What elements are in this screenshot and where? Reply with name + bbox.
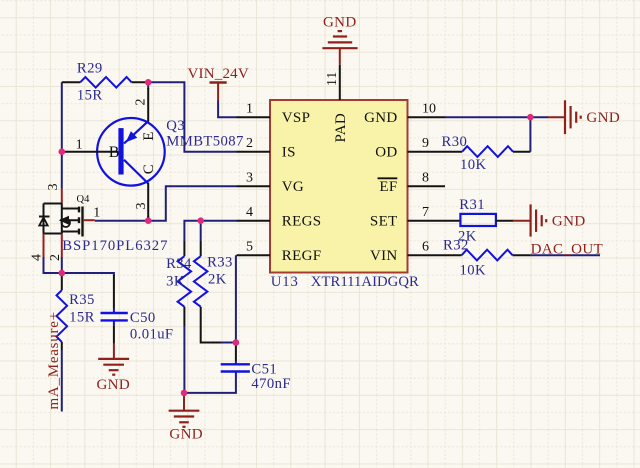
Q4 body arrow: [59, 216, 69, 225]
svg-text:3: 3: [134, 203, 149, 210]
pin 4 REGS stub: [237, 220, 271, 222]
pin 11 PAD stub: [339, 65, 341, 100]
wire Q4 pin4 corner to source junction: [44, 257, 62, 273]
wire VIN_24V to VSP: [218, 101, 236, 118]
svg-text:E: E: [141, 132, 157, 141]
svg-text:1: 1: [246, 102, 253, 117]
junction dot R29/emitter: [145, 79, 152, 86]
R35 pin bottom: [61, 342, 63, 350]
junction dot REGS net: [197, 217, 204, 224]
VIN_24V power bar: [210, 81, 227, 84]
Q4 drain pin 3 red: [61, 189, 63, 204]
svg-text:2: 2: [133, 99, 148, 106]
C50 pin top: [113, 275, 115, 309]
R31 pin right: [496, 220, 513, 222]
wire left column base to Q4 drain: [61, 152, 63, 189]
svg-text:2K: 2K: [208, 272, 227, 288]
R35 pin top: [61, 273, 63, 290]
wire source junction to C50: [62, 273, 114, 276]
wire REGF down to C51: [235, 255, 237, 342]
R34 pin top: [183, 241, 185, 256]
svg-text:C51: C51: [251, 361, 277, 377]
svg-text:2: 2: [48, 254, 63, 261]
svg-text:4: 4: [30, 254, 45, 261]
svg-text:GND: GND: [169, 427, 203, 443]
svg-text:0.01uF: 0.01uF: [130, 326, 174, 342]
wire GND net pin10: [445, 116, 548, 118]
svg-text:EF: EF: [379, 179, 397, 195]
resistor R29: [62, 61, 148, 104]
svg-text:VIN: VIN: [370, 248, 398, 264]
svg-text:IS: IS: [282, 145, 296, 161]
wire Q3 collector to bus: [147, 216, 149, 221]
transistor Q4 BSP170PL6327: [30, 184, 169, 262]
R29 pin left: [62, 81, 80, 83]
Q4 drain stub: [62, 208, 79, 210]
R29 zigzag body: [80, 77, 131, 88]
pin 7 SET stub: [408, 220, 461, 222]
svg-text:11: 11: [325, 71, 340, 86]
junction dot C51 top: [233, 339, 240, 346]
Q4 diode cathode bar: [39, 216, 50, 218]
C50 ground bars: [98, 358, 129, 360]
Q4 body stub: [60, 219, 79, 221]
svg-text:Q4: Q4: [77, 194, 91, 205]
C50 plate top: [101, 312, 128, 314]
R33 pin bottom: [201, 307, 221, 343]
R35 zigzag body: [57, 290, 68, 342]
wire Q4 pin2 to source junction: [61, 257, 63, 273]
svg-text:GND: GND: [552, 213, 586, 229]
svg-text:GND: GND: [96, 377, 130, 393]
wire R29-left to Q3 base column: [61, 82, 63, 151]
svg-text:10: 10: [422, 102, 436, 117]
R34 zigzag body: [178, 256, 192, 307]
resistor R35: [57, 273, 95, 350]
svg-text:VG: VG: [282, 179, 304, 195]
junction dot collector bus: [145, 217, 152, 224]
svg-text:Q3: Q3: [166, 118, 185, 134]
pin 3 VG stub: [237, 185, 271, 187]
GND net stem right: [548, 116, 565, 118]
Q4 gate pin 1 red: [83, 219, 95, 221]
capacitor C50: [101, 275, 174, 344]
Q3 circle body: [97, 118, 165, 186]
svg-text:DAC_OUT: DAC_OUT: [531, 241, 603, 257]
pin 8 EF stub: [408, 185, 446, 187]
C51 ground bars: [169, 410, 200, 412]
svg-text:GND: GND: [323, 14, 357, 30]
R30 zigzag body: [462, 146, 513, 157]
svg-text:R34: R34: [166, 256, 192, 272]
R31 box body: [460, 214, 496, 226]
Q4 source stub: [62, 231, 79, 233]
Q4 channel dash top: [78, 207, 80, 213]
SET ground stem: [513, 220, 531, 222]
resistor R31: [458, 197, 513, 245]
svg-text:3: 3: [246, 171, 253, 186]
Q3 base bar: [118, 128, 123, 174]
GND net bars right: [564, 100, 566, 134]
svg-text:R32: R32: [443, 237, 469, 253]
Q3 collector pin 3: [147, 183, 149, 220]
svg-text:mA_Measure+: mA_Measure+: [46, 311, 62, 409]
svg-text:B: B: [109, 144, 120, 161]
ground right GND1 (pin10 net): [548, 100, 620, 134]
C51 pin top: [235, 343, 237, 362]
C50 bottom stub: [113, 320, 115, 325]
svg-text:470nF: 470nF: [251, 376, 291, 392]
svg-text:MMBT5087: MMBT5087: [166, 134, 243, 150]
svg-text:15R: 15R: [77, 88, 103, 104]
svg-text:REGF: REGF: [282, 248, 322, 264]
svg-text:8: 8: [422, 171, 429, 186]
svg-text:1: 1: [76, 138, 83, 153]
svg-text:1: 1: [93, 205, 100, 220]
R33 pin top: [200, 241, 202, 256]
C50 plate bottom: [101, 319, 128, 321]
wire junction R29 right to IS net vertical: [148, 82, 236, 151]
Q4 center vertical: [61, 204, 63, 234]
svg-text:PAD: PAD: [333, 113, 349, 143]
capacitor C51: [221, 343, 291, 393]
C50 pin bottom: [113, 325, 115, 344]
power port GND top: [322, 14, 357, 64]
ground symbol bars top: [338, 30, 342, 32]
pin 5 REGF stub: [237, 254, 271, 256]
R32 zigzag body: [462, 250, 513, 261]
wire C51 bottom return to GND junction: [184, 378, 236, 393]
power port VIN_24V: [188, 66, 249, 101]
Q3 emitter pin 2: [147, 88, 149, 122]
pin 2 IS stub: [237, 151, 271, 153]
R29 pin right: [132, 81, 149, 83]
svg-text:2: 2: [246, 136, 253, 151]
wire DAC_OUT net: [531, 254, 600, 256]
svg-text:10K: 10K: [460, 157, 487, 173]
Q4 source pin 2 red: [61, 234, 63, 258]
wire R30 right to GND net: [529, 117, 531, 152]
pin 10 GND stub: [408, 116, 446, 118]
svg-text:BSP170PL6327: BSP170PL6327: [62, 238, 168, 254]
wire R34 bottom to GND junction: [183, 326, 185, 393]
svg-text:OD: OD: [375, 145, 397, 161]
R33 zigzag body: [194, 256, 208, 307]
Q4 bottom rail: [44, 233, 62, 235]
svg-text:9: 9: [422, 136, 429, 151]
junction dot Q4 source: [59, 270, 66, 277]
svg-text:R30: R30: [442, 134, 468, 150]
Q4 channel dash bottom: [78, 229, 80, 235]
C50 ground stem: [113, 344, 115, 359]
svg-text:R35: R35: [69, 292, 95, 308]
Q4 gate bar: [81, 207, 83, 237]
wire R33 top stub: [200, 221, 202, 241]
junction dot GND net R30: [527, 114, 534, 121]
Q4 body diode branch: [43, 204, 45, 234]
Q3 base pin 1: [62, 151, 119, 153]
wire Q3 emitter upper segment: [147, 82, 149, 89]
Q4 channel dash middle: [78, 217, 80, 223]
svg-text:R31: R31: [459, 197, 485, 213]
svg-text:6: 6: [422, 240, 429, 255]
Q4 top rail: [44, 203, 62, 205]
svg-text:SET: SET: [370, 214, 398, 230]
svg-text:4: 4: [246, 205, 253, 220]
resistor R30: [442, 134, 531, 173]
svg-text:R29: R29: [77, 61, 103, 77]
svg-text:15R: 15R: [69, 309, 95, 325]
Q4 diode triangle: [39, 218, 47, 226]
C50 top stub: [113, 309, 115, 314]
svg-text:5: 5: [246, 240, 253, 255]
C51 bottom stub: [235, 372, 237, 379]
wire REGS net to R34 R33: [184, 221, 236, 241]
C51 ground stem: [183, 393, 185, 411]
svg-text:VSP: VSP: [282, 110, 310, 126]
wire R33 bottom corner to C51 junction: [221, 342, 236, 344]
svg-text:10K: 10K: [460, 262, 487, 278]
svg-text:XTR111AIDGQR: XTR111AIDGQR: [311, 274, 419, 290]
Q3 emitter diagonal: [124, 121, 148, 143]
resistor R32: [443, 237, 531, 278]
R30 pin right: [513, 151, 530, 153]
svg-text:R33: R33: [207, 255, 233, 271]
svg-text:3K: 3K: [166, 273, 185, 289]
R34 pin bottom: [183, 307, 185, 326]
pin 1 VSP stub: [237, 116, 271, 118]
Q3 collector diagonal: [124, 160, 148, 184]
junction dot Q3 base: [59, 148, 66, 155]
svg-text:C50: C50: [130, 310, 156, 326]
pin 6 VIN stub: [408, 254, 462, 256]
svg-text:3: 3: [46, 184, 61, 191]
svg-text:REGS: REGS: [282, 214, 322, 230]
C51 plate bottom: [221, 370, 250, 372]
ground right GND2 (SET net): [513, 204, 586, 236]
C51 top stub: [235, 361, 237, 364]
transistor Q3 MMBT5087: [62, 88, 244, 220]
svg-text:VIN_24V: VIN_24V: [188, 66, 249, 82]
resistor R34: [166, 241, 192, 326]
IC U13 XTR111AIDGQR body: [270, 100, 408, 273]
junction dot R34 GND: [181, 390, 188, 397]
svg-text:GND: GND: [586, 110, 620, 126]
wire R35 bottom to mA_Measure+: [61, 350, 63, 412]
C51 plate top: [221, 363, 250, 365]
svg-text:GND: GND: [364, 110, 397, 126]
Q4 tab pin 4 red: [43, 234, 45, 258]
resistor R33: [194, 241, 233, 343]
Q4 body ring: [62, 219, 70, 227]
R32 pin right: [513, 254, 531, 256]
svg-text:U13: U13: [271, 274, 299, 290]
ground for C50: [96, 344, 130, 393]
ground for C51: [169, 393, 203, 443]
svg-text:7: 7: [422, 205, 429, 220]
pin 9 OD stub: [408, 151, 463, 153]
SET ground bars: [529, 204, 531, 236]
wire gate bus to VG: [95, 186, 237, 221]
Q3 emitter arrow: [126, 131, 138, 142]
svg-text:C: C: [141, 164, 157, 174]
